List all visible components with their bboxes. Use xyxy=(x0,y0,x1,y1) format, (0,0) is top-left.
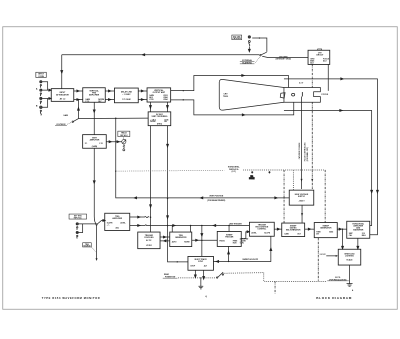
svg-text:CONTROL: CONTROL xyxy=(257,229,267,231)
input connector J2 xyxy=(40,89,42,96)
timing switch box U12 xyxy=(249,222,274,236)
wire pickoff right output down (line B) xyxy=(167,126,188,263)
CRT grid intensity label xyxy=(276,56,292,60)
wire pickoff left output down (line A) xyxy=(150,126,152,232)
external blanking connector xyxy=(248,36,250,46)
wire preamp down to sync amplifier xyxy=(93,102,95,134)
wire switch to CRT circuit box xyxy=(262,56,308,57)
svg-text:GATE: GATE xyxy=(284,232,289,235)
sweep trigger box U10b xyxy=(217,231,241,246)
svg-text:X 10: X 10 xyxy=(85,101,89,103)
wire CRT circuit to focus electrode xyxy=(327,64,329,90)
power switch xyxy=(216,272,223,278)
sweep generator box U14 xyxy=(314,223,337,238)
svg-text:SWEEP HOLDOFF: SWEEP HOLDOFF xyxy=(242,259,259,261)
svg-text:OUT: OUT xyxy=(297,233,302,235)
svg-text:X 1: X 1 xyxy=(85,143,88,145)
ground below power line xyxy=(198,278,203,289)
svg-text:(FOR BEAM FINDER): (FOR BEAM FINDER) xyxy=(207,199,225,202)
blanking source switch xyxy=(260,52,267,56)
svg-text:LEVEL: LEVEL xyxy=(251,233,256,235)
svg-text:CHOP: CHOP xyxy=(190,265,196,267)
wire HV supply to sweep gate xyxy=(301,205,303,223)
wire bus drop to trigger generator xyxy=(171,225,173,232)
svg-text:GENERATOR: GENERATOR xyxy=(175,236,187,239)
input connectors label box xyxy=(36,72,46,78)
svg-text:4: 4 xyxy=(205,295,207,298)
wire J1/J2 to attenuator xyxy=(42,82,51,91)
wire sync amp down to trigger source switch xyxy=(93,148,96,224)
CRT funnel and screen xyxy=(219,79,284,110)
svg-text:SEP ADJ: SEP ADJ xyxy=(120,134,127,137)
svg-text:DIV: DIV xyxy=(316,233,320,235)
trigger coupling box U8 xyxy=(138,232,160,249)
power bus dashed line right xyxy=(224,273,327,294)
svg-text:AV 1-2: AV 1-2 xyxy=(60,98,66,101)
volts/div variable switch xyxy=(72,119,78,123)
wire connector over to switch throw xyxy=(252,37,267,52)
svg-text:SOURCE: SOURCE xyxy=(83,246,91,248)
dotted drop to sweep gate xyxy=(283,170,285,223)
dash-dot drop to sweep generator xyxy=(324,170,326,223)
wire timing switch to sweep gate xyxy=(274,228,282,230)
position label box xyxy=(118,131,130,139)
trigger input amplifier box U7 xyxy=(105,213,130,230)
svg-text:V894: V894 xyxy=(163,98,167,101)
ext trig connector 2 xyxy=(76,231,78,238)
wire sweep trigger down to holdoff xyxy=(228,246,230,261)
svg-text:+: + xyxy=(252,171,254,174)
wire CRT grid return (upper right feedback) xyxy=(284,78,379,235)
ext trig connector 1 xyxy=(76,223,78,230)
wire preamp to delay line (pair) xyxy=(105,90,114,101)
trigger pickoff box U5 xyxy=(148,112,171,126)
svg-text:V765: V765 xyxy=(149,99,153,101)
wire blanking switch down to attenuator xyxy=(61,55,63,89)
wire trig gen to sweep trigger xyxy=(192,239,218,241)
ext trig input label box xyxy=(69,214,87,219)
svg-text:(FOR SMALL CRT): (FOR SMALL CRT) xyxy=(306,147,309,162)
input connector J3 xyxy=(40,97,42,104)
svg-text:SCALE: SCALE xyxy=(346,259,353,262)
wire output amp down to trigger pickoff (pair) xyxy=(149,102,168,112)
svg-text:(GAIN): (GAIN) xyxy=(92,145,98,148)
wire horiz amp down to LV supply xyxy=(357,238,359,249)
CRT gun envelope xyxy=(284,88,320,103)
CRT cathode bar xyxy=(301,92,303,96)
CRT deflection plates symbol xyxy=(280,93,285,99)
wire ext trig connectors to switch xyxy=(79,224,96,233)
vertical output amplifier box U4 xyxy=(147,88,171,102)
svg-text:MULTIVIBRATOR: MULTIVIBRATOR xyxy=(286,229,301,232)
input connector J4 xyxy=(40,106,43,115)
svg-text:SLOPE: SLOPE xyxy=(264,233,271,235)
external blanking label xyxy=(240,57,260,65)
CRT label xyxy=(223,94,228,98)
X-Y display dotted line xyxy=(115,170,325,180)
wire upper deflection plate xyxy=(171,74,289,91)
svg-text:LV 12V: LV 12V xyxy=(320,254,327,256)
svg-text:OUTPUT AMP: OUTPUT AMP xyxy=(153,91,166,94)
high voltage supply box xyxy=(289,190,314,205)
svg-text:MAG: MAG xyxy=(362,234,367,237)
wire CRT unblank return (lower right feedback) xyxy=(284,109,373,225)
svg-text:FOCUS CONTROLLING: FOCUS CONTROLLING xyxy=(305,142,307,161)
calibrator output drops xyxy=(194,270,204,279)
svg-text:LEVEL: LEVEL xyxy=(120,222,125,224)
svg-text:RUN: RUN xyxy=(233,242,237,244)
sync amplifier box U6 xyxy=(83,135,107,149)
wire coupling to trig gen (pair) xyxy=(160,236,170,242)
svg-text:VERT CENTERING: VERT CENTERING xyxy=(152,116,168,118)
ground xyxy=(347,265,353,286)
internal blanking line (to switch) xyxy=(62,54,260,56)
CRT grid ring xyxy=(292,93,295,96)
wire bus drop to trigger generator right xyxy=(190,225,192,232)
external CRT cathode label box xyxy=(232,35,242,40)
svg-text:AMPLIFIER: AMPLIFIER xyxy=(90,138,100,141)
low voltage power supply box U16 xyxy=(338,249,361,265)
wire sync amp to position pot xyxy=(106,141,121,143)
svg-text:CAL: CAL xyxy=(349,234,352,237)
svg-text:A: A xyxy=(36,87,38,90)
svg-text:REAR: REAR xyxy=(164,273,170,276)
svg-text:OUT): OUT) xyxy=(240,242,245,244)
CRT cathode / control grid box U10 xyxy=(308,49,330,64)
svg-text:ADJ: ADJ xyxy=(116,227,119,230)
svg-text:ALT: ALT xyxy=(204,264,208,267)
sweep gating multivibrator box U13 xyxy=(282,223,305,237)
svg-text:ATTENUATOR: ATTENUATOR xyxy=(56,93,69,96)
wire bus drop to calibrator xyxy=(201,225,203,256)
svg-text:MAG: MAG xyxy=(329,231,334,234)
wire volts/div line to trigger pickoff xyxy=(78,118,148,120)
svg-text:ADJ: ADJ xyxy=(310,61,313,64)
wire bus drop to sweep trigger box xyxy=(228,225,230,231)
trigger generator box U9 xyxy=(170,232,192,247)
wire sweep gen to horiz amp xyxy=(337,228,347,230)
trigger source switch xyxy=(96,219,105,225)
svg-text:AUTO: AUTO xyxy=(172,240,177,243)
svg-text:CATHODE VOLTAGE: CATHODE VOLTAGE xyxy=(298,142,301,159)
wire switch line position down xyxy=(96,225,98,261)
svg-text:INPUT AC: INPUT AC xyxy=(74,216,83,219)
svg-text:+ / -: + / - xyxy=(107,224,110,226)
svg-text:TYPE R453 WAVEFORM MONITOR: TYPE R453 WAVEFORM MONITOR xyxy=(42,296,101,300)
svg-text:BLOCK DIAGRAM: BLOCK DIAGRAM xyxy=(316,296,352,300)
svg-text:LINE TRIGGER: LINE TRIGGER xyxy=(229,223,242,225)
power bus label xyxy=(327,277,349,281)
svg-text:TRIGGER: TRIGGER xyxy=(225,236,234,238)
svg-text:4: 4 xyxy=(352,289,354,292)
trig source label box xyxy=(83,243,96,252)
svg-text:T5030: T5030 xyxy=(223,96,228,98)
svg-text:AMPLIFIER: AMPLIFIER xyxy=(112,217,122,220)
wire sweep trigger to timing switch xyxy=(241,231,249,239)
svg-text:FOCUS: FOCUS xyxy=(322,94,329,96)
wire connector down to blanking switch xyxy=(248,46,250,51)
svg-text:LIGHTING: LIGHTING xyxy=(345,255,354,257)
svg-text:AC DC: AC DC xyxy=(146,239,152,242)
unblanking wire from volts/div junction to HV xyxy=(116,118,290,199)
svg-text:HORIZ: HORIZ xyxy=(249,178,254,180)
wire trig amp upper output xyxy=(130,216,149,218)
attenuator / input amp box U1 xyxy=(51,89,74,102)
wire sweep gate to sweep generator xyxy=(305,228,315,230)
svg-text:B: B xyxy=(36,105,38,107)
wire trig amp lower output / trigger bus xyxy=(130,224,250,226)
svg-text:CIRCUIT: CIRCUIT xyxy=(316,55,324,57)
dotted drop to HV supply xyxy=(292,170,294,190)
delay line box xyxy=(114,88,138,103)
wire CRT cathode to HV supply xyxy=(301,96,303,189)
unblanking labels xyxy=(207,195,225,202)
svg-text:(X-Y): (X-Y) xyxy=(232,171,237,173)
wire lower deflection plate xyxy=(171,99,294,116)
svg-text:6.3 V: 6.3 V xyxy=(299,83,304,85)
wire CRT circuit to cathode (dash-dot) xyxy=(311,64,313,189)
preamp box U2 xyxy=(83,88,106,103)
wire J3/J4 to attenuator xyxy=(42,97,51,107)
svg-text:+: + xyxy=(269,171,271,174)
volts/div label xyxy=(55,122,72,126)
svg-text:VERT POSITION: VERT POSITION xyxy=(209,195,224,197)
svg-text:COUPLING: COUPLING xyxy=(144,237,154,239)
svg-text:GAIN: GAIN xyxy=(63,114,68,117)
svg-text:CATHODE: CATHODE xyxy=(233,37,242,40)
delayed gate label xyxy=(240,237,249,244)
svg-text:ADJ: ADJ xyxy=(323,59,326,62)
horizontal display label xyxy=(228,165,241,173)
svg-text:170 OHM: 170 OHM xyxy=(122,99,131,101)
svg-text:CONN: CONN xyxy=(38,76,44,78)
position pot xyxy=(122,140,126,151)
svg-text:SUPPLY: SUPPLY xyxy=(298,196,306,198)
power line dashed (left) xyxy=(178,277,216,278)
wire sweep output to unblank box xyxy=(342,229,344,249)
wire delay line to output amp (pair) xyxy=(138,90,147,101)
svg-text:TRIG'D: TRIG'D xyxy=(219,241,225,243)
input connector J1 xyxy=(40,81,42,88)
svg-text:MAGNIFIER: MAGNIFIER xyxy=(353,229,364,232)
svg-text:AMPLIFIER: AMPLIFIER xyxy=(89,94,100,97)
svg-text:~ 1 USEC: ~ 1 USEC xyxy=(122,94,131,96)
svg-text:SYNC: SYNC xyxy=(198,261,204,263)
dash-dot sweep gen to power bus xyxy=(317,238,319,281)
svg-text:GENERATOR: GENERATOR xyxy=(320,226,332,229)
wire attenuator to preamp (pair) xyxy=(74,90,83,101)
svg-text:(TRIG): (TRIG) xyxy=(157,124,163,126)
svg-text:NORM: NORM xyxy=(150,121,156,123)
horizontal amplifier box U15 xyxy=(347,221,370,238)
svg-text:INV: INV xyxy=(164,121,168,123)
power switch label xyxy=(163,277,178,279)
svg-text:(INTENSITY MOD): (INTENSITY MOD) xyxy=(276,58,292,60)
svg-text:LF REJ: LF REJ xyxy=(146,245,152,247)
+12V label and arrow xyxy=(320,254,338,257)
holdoff line xyxy=(213,236,271,262)
svg-text:X 10: X 10 xyxy=(99,143,103,145)
svg-text:NORM: NORM xyxy=(184,241,190,243)
svg-text:-1960 V: -1960 V xyxy=(298,200,305,202)
gain switch wire up xyxy=(77,100,79,119)
calibrator box U11 xyxy=(188,256,214,270)
